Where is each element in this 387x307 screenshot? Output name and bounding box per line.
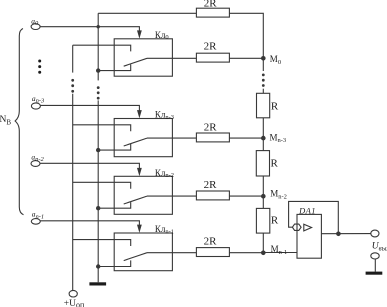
wire a_n-1 to switch Kl_n-1 control (40, 221, 139, 225)
svg-text:+Uоп: +Uоп (64, 299, 85, 307)
Kl_n-3 lever (124, 138, 147, 146)
node M_n-3 (261, 136, 266, 141)
terminal U_out upper (371, 230, 379, 237)
ground bus dotted continuation (97, 86, 100, 99)
ladder bus dotted continuation below M0 (262, 74, 265, 87)
resistor 2R top (196, 8, 229, 17)
wire 2R row1 to node M0 (229, 57, 263, 59)
Kl_n-2 top contact from +Uop bus (73, 182, 131, 188)
svg-text:2R: 2R (204, 121, 218, 133)
wire top 2R to node M0 (229, 13, 263, 58)
op-amp input marker (292, 224, 301, 230)
terminal U_out lower (371, 253, 379, 259)
svg-text:R: R (271, 100, 279, 112)
Kl_n-2 bottom contact from ground bus (98, 202, 131, 208)
Kl_n-1 lever (124, 253, 147, 261)
wire op-amp output (321, 233, 370, 235)
svg-text:2R: 2R (204, 179, 218, 191)
wire Kl_n-2 output to 2R (147, 195, 196, 197)
wire a0 to switch Kl0 control (40, 27, 139, 31)
svg-text:R: R (271, 158, 279, 170)
switch Kl_n-3 box (114, 119, 172, 157)
junction a0 wire / ground bus (97, 25, 100, 28)
arrow into Kl_n-1 (137, 225, 142, 233)
Kl_n-2 lever (124, 196, 147, 204)
ground bus (vertical) (97, 13, 99, 80)
Kl0 top contact from +Uop bus (73, 45, 131, 51)
op-amp triangle symbol (304, 224, 312, 231)
Kl_n-1 bottom contact from ground bus (98, 260, 131, 266)
ground bus lower segment (97, 100, 99, 282)
resistor 2R row1 (196, 53, 229, 62)
Kl_n-1 top contact from +Uop bus (73, 240, 131, 246)
wire Kl_n-1 output to 2R (147, 252, 196, 254)
ellipsis dots input column (38, 60, 41, 74)
wire 2R row3 to node M_n-2 (229, 195, 263, 197)
ladder bus solid below M0 (262, 58, 264, 71)
svg-text:2R: 2R (204, 235, 218, 247)
wire M_n-2 to R3 (262, 196, 264, 208)
svg-text:R: R (271, 214, 279, 226)
Kl_n-3 bottom contact from ground bus (98, 144, 131, 150)
switch Kl_n-1 box (114, 233, 172, 271)
Kl_n-3 top contact from +Uop bus (73, 125, 131, 131)
svg-text:2R: 2R (204, 41, 218, 53)
wire ground bus to top 2R (98, 12, 196, 14)
switch Kl_n-2 box (114, 176, 172, 214)
junction ground bus / Kl_n-3 bottom contact (96, 148, 100, 152)
terminal +Uop (69, 290, 77, 297)
Kl0 lever (124, 58, 147, 66)
terminal a0 (31, 24, 40, 30)
wire M_n-1 to op-amp input (263, 252, 297, 254)
node M0 (261, 56, 266, 61)
+Uop bus dotted continuation (71, 79, 74, 93)
wire 2R row2 to node M_n-3 (229, 137, 263, 139)
resistor 2R row3 (196, 191, 229, 200)
node M_n-1 (261, 251, 266, 256)
arrow into Kl_n-3 (137, 110, 142, 118)
svg-text:DA1: DA1 (298, 206, 316, 216)
junction feedback / output (336, 232, 341, 237)
wire Kl_n-3 output to 2R (147, 137, 196, 139)
wire Kl0 output to 2R (147, 57, 196, 59)
+Uop reference bus (vertical) (72, 45, 74, 72)
+Uop bus lower segment (72, 94, 74, 291)
arrow into Kl_n-2 (137, 168, 142, 176)
resistor 2R row4 (196, 248, 229, 257)
wire a_n-3 to switch Kl_n-3 control (40, 105, 139, 110)
resistor R3 (256, 208, 269, 233)
resistor R2 (256, 151, 269, 176)
junction ground bus / Kl_n-2 bottom contact (96, 206, 100, 210)
terminal a_n-2 (31, 161, 40, 167)
junction ground bus / Kl_n-1 bottom contact (96, 264, 100, 268)
wire ladder to R1 (262, 89, 264, 94)
terminal a_n-3 (31, 103, 40, 109)
ground symbol left (89, 282, 106, 285)
svg-text:2R: 2R (204, 0, 218, 9)
Kl0 bottom contact from ground bus (98, 65, 131, 71)
arrow into Kl0 (137, 30, 142, 38)
ground symbol right (366, 272, 383, 275)
wire R3 to node M_n-1 (262, 233, 264, 253)
feedback wire output to input (289, 201, 339, 233)
wire R2 to node M_n-2 (262, 176, 264, 196)
brace N_B input group (15, 29, 23, 215)
wire a_n-2 to switch Kl_n-2 control (40, 163, 139, 168)
node M_n-2 (261, 194, 266, 199)
op-amp DA1 body (297, 214, 321, 258)
switch Kl0 box (114, 39, 172, 76)
wire M_n-3 to R2 (262, 138, 264, 151)
resistor R1 (257, 93, 270, 118)
junction ground bus / Kl0 bottom contact (96, 68, 100, 72)
wire lower terminal to ground (374, 259, 376, 272)
wire R1 to node M_n-3 (262, 118, 264, 138)
resistor 2R row2 (196, 133, 229, 142)
wire 2R row4 to node M_n-1 (229, 252, 263, 254)
terminal a_n-1 (31, 219, 40, 225)
